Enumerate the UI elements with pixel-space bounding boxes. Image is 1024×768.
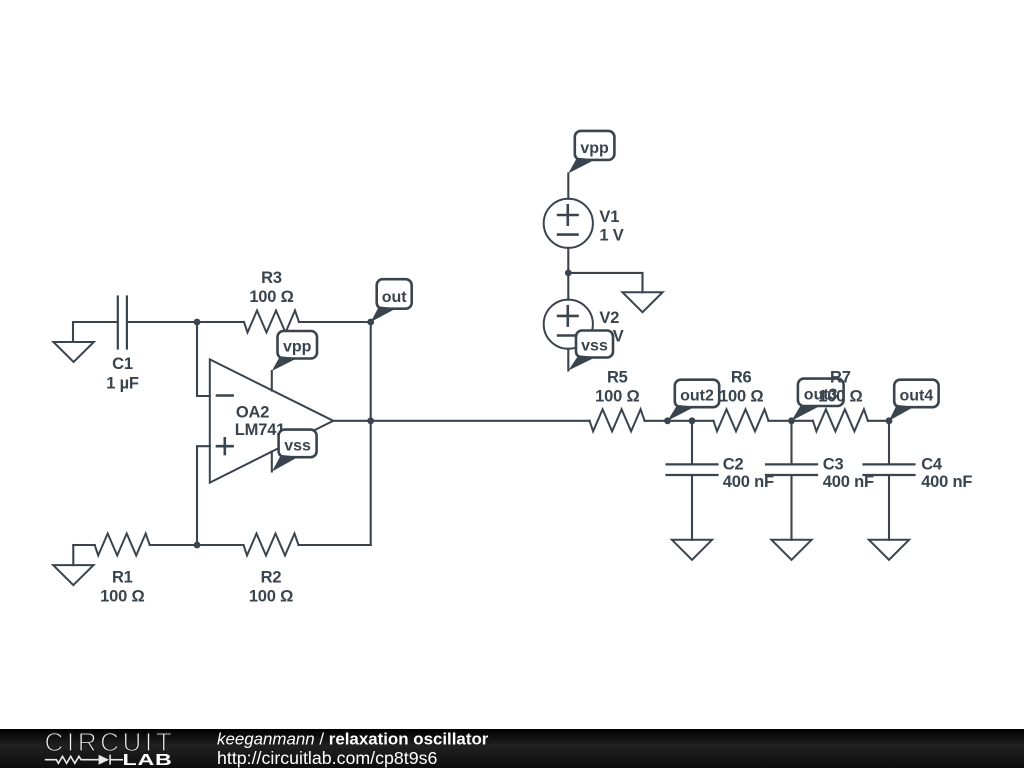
label R5 (595, 368, 639, 405)
resistor R6 (714, 409, 769, 431)
wire C2 to ground (691, 475, 693, 539)
ground (C2) (672, 540, 712, 560)
svg-text:V2: V2 (599, 309, 619, 327)
wire out vertical (out node to R2 feedback) (370, 322, 372, 545)
svg-text:R3: R3 (261, 269, 282, 287)
ground (C3) (771, 540, 811, 560)
node C2 top (junction dot) (689, 417, 696, 424)
svg-text:R6: R6 (731, 368, 752, 386)
label R2 (249, 568, 293, 605)
op-amp minus input symbol (217, 394, 233, 397)
label OA2 LM741 (235, 403, 285, 439)
footer bar (0, 729, 1024, 768)
svg-text:R1: R1 (112, 568, 133, 586)
ground (sources) (622, 292, 662, 312)
resistor R3 (244, 311, 299, 333)
resistor R1 (95, 534, 150, 556)
ground (C4) (869, 540, 909, 560)
svg-text:keeganmann / relaxation oscill: keeganmann / relaxation oscillator (217, 730, 489, 749)
voltage source V2 (544, 300, 593, 349)
V2 plus symbol (558, 306, 577, 325)
svg-text:vpp: vpp (283, 339, 312, 356)
label R7 (818, 368, 862, 405)
op-amp V- pin stub (271, 452, 273, 472)
label V2 (599, 309, 623, 346)
footer title keeganmann / relaxation oscillator (217, 730, 489, 749)
wire R2 to out vertical (299, 544, 371, 546)
wire V2 to vss flag (567, 349, 569, 371)
flag vpp (op-amp V+) (272, 331, 317, 371)
svg-text:C1: C1 (112, 355, 133, 373)
svg-text:100 Ω: 100 Ω (719, 387, 763, 405)
wire ground to R1 (73, 544, 94, 546)
op-amp OA2 triangle (210, 359, 333, 482)
wire V1 to node C (567, 248, 569, 273)
capacitor C4 (864, 464, 915, 475)
op-amp V+ pin stub (271, 371, 273, 391)
node C (junction dot V1/V2/gnd) (565, 270, 572, 277)
CircuitLab logo resistor-diode glyph (45, 755, 123, 765)
footer url (217, 748, 438, 768)
wire C1 to node A (128, 321, 197, 323)
svg-text:out: out (382, 289, 408, 306)
node out top (junction dot) (367, 319, 374, 326)
svg-text:100 Ω: 100 Ω (249, 288, 293, 306)
wire node B up to non-inverting input (197, 446, 210, 545)
wire C4 to ground (888, 475, 890, 539)
svg-text:out4: out4 (900, 387, 934, 404)
svg-text:400 nF: 400 nF (921, 473, 972, 491)
resistor R5 (590, 409, 645, 431)
svg-text:100 Ω: 100 Ω (818, 387, 862, 405)
label C4 (921, 456, 972, 491)
svg-text:400 nF: 400 nF (823, 473, 874, 491)
wire R6 to node out3 (769, 420, 792, 422)
node out junction dot on output (367, 417, 374, 424)
voltage source V1 (544, 199, 593, 248)
svg-text:100 Ω: 100 Ω (100, 587, 144, 605)
svg-text:LAB: LAB (123, 752, 173, 768)
flag out3 (792, 379, 844, 421)
wire R3 to node out (299, 321, 371, 323)
ground (below R1) (72, 545, 74, 565)
flag out2 (668, 380, 720, 421)
wire node A to R3 (197, 321, 244, 323)
ground (left of C1) (53, 342, 93, 362)
label R1 (100, 568, 144, 605)
wire node C2 down to capacitor C2 (691, 421, 693, 464)
flag vpp (at V1) (568, 131, 614, 174)
svg-text:100 Ω: 100 Ω (249, 587, 293, 605)
node out4 (junction dot) (886, 417, 893, 424)
wire node C2 to R6 (692, 420, 714, 422)
node out2 (junction dot) (664, 417, 671, 424)
svg-text:C3: C3 (823, 456, 844, 474)
wire R7 to node out4 (868, 420, 889, 422)
op-amp plus input symbol (217, 438, 233, 454)
V1 plus symbol (558, 205, 577, 224)
flag out4 (889, 380, 939, 421)
svg-text:C4: C4 (921, 456, 943, 474)
wire vpp flag to V1 (567, 173, 569, 198)
capacitor C2 (667, 464, 718, 475)
flag vss (at V2) (568, 331, 613, 371)
CircuitLab logo text CIRCUIT (45, 727, 176, 757)
label C2 (723, 456, 774, 491)
svg-text:1 V: 1 V (599, 227, 623, 245)
svg-text:100 Ω: 100 Ω (595, 387, 639, 405)
wire R1 to node B (150, 544, 197, 546)
svg-text:vpp: vpp (580, 140, 609, 157)
wire node out3 to R7 (792, 420, 813, 422)
wire node C to ground (568, 273, 642, 292)
V1 minus symbol (558, 233, 577, 236)
wire R5 to node out2 (645, 420, 668, 422)
wire node A down to inverting input (197, 322, 210, 396)
label R3 (249, 269, 293, 306)
V2 minus symbol (558, 334, 577, 337)
node B (junction dot R1/R2/+in) (194, 542, 201, 549)
svg-text:C2: C2 (723, 456, 744, 474)
svg-text:R7: R7 (830, 368, 851, 386)
svg-text:R5: R5 (607, 368, 628, 386)
label V1 (599, 208, 623, 245)
node A (junction dot C1/R3/-in) (194, 319, 201, 326)
CircuitLab logo text LAB (123, 752, 173, 768)
capacitor C1 (118, 297, 127, 349)
wire node out4 down to capacitor C4 (888, 421, 890, 464)
svg-text:out2: out2 (680, 387, 714, 404)
wire node B to R2 (197, 544, 244, 546)
wire ground to C1 left plate (73, 322, 117, 342)
svg-text:1 µF: 1 µF (106, 374, 139, 392)
svg-text:400 nF: 400 nF (723, 473, 774, 491)
flag out (op-amp output top) (371, 279, 412, 322)
wire node out3 down to capacitor C3 (790, 421, 792, 464)
label C3 (823, 456, 874, 491)
label R6 (719, 368, 763, 405)
svg-text:http://circuitlab.com/cp8t9s6: http://circuitlab.com/cp8t9s6 (217, 748, 438, 768)
label C1 (106, 355, 139, 393)
svg-text:V1: V1 (599, 208, 619, 226)
wire node C to V2 (567, 273, 569, 300)
resistor R2 (244, 534, 299, 556)
wire node out2 to node C2 (668, 420, 693, 422)
svg-text:vss: vss (284, 437, 311, 454)
wire op-amp output to R5 (333, 420, 589, 422)
svg-text:OA2: OA2 (236, 403, 269, 421)
svg-text:R2: R2 (261, 568, 282, 586)
svg-text:vss: vss (581, 338, 608, 355)
wire C3 to ground (790, 475, 792, 539)
flag vss (op-amp V-) (272, 430, 317, 472)
resistor R7 (813, 409, 868, 431)
node out3 (junction dot) (788, 417, 795, 424)
capacitor C3 (766, 464, 817, 475)
